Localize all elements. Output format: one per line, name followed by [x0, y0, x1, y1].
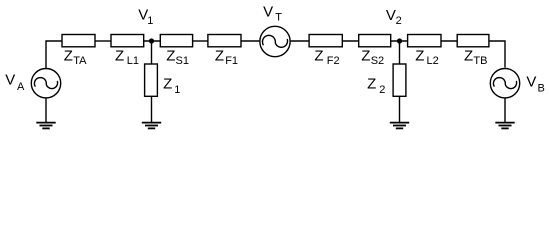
svg-text:F1: F1 — [225, 55, 238, 67]
wire VA to ground — [45, 98, 47, 122]
svg-text:V: V — [5, 72, 15, 89]
svg-text:Z: Z — [215, 47, 224, 64]
wire ZF1 to VT — [241, 40, 259, 42]
label V1 — [138, 7, 153, 27]
source VT — [260, 26, 290, 56]
wire Z1 to ground — [151, 96, 153, 122]
ground below VB — [495, 123, 514, 129]
svg-text:V: V — [263, 3, 273, 20]
svg-text:Z: Z — [314, 47, 323, 64]
wire V2 node to Z2 — [399, 41, 401, 64]
ground below VA — [36, 123, 55, 129]
svg-text:S1: S1 — [176, 55, 189, 67]
svg-text:T: T — [275, 12, 282, 24]
svg-text:Z: Z — [367, 76, 376, 93]
svg-text:L2: L2 — [427, 55, 439, 67]
svg-text:Z: Z — [361, 47, 370, 64]
label VB — [526, 73, 544, 94]
svg-text:TB: TB — [473, 55, 487, 67]
label ZF1 — [215, 47, 238, 67]
wire ZL1 to ZS1 — [144, 40, 161, 42]
impedance Z2 — [393, 64, 406, 96]
impedance ZS2 — [359, 35, 391, 47]
label Z1 — [163, 76, 180, 96]
label ZS2 — [361, 47, 384, 67]
label V2 — [386, 7, 402, 27]
source VA — [31, 69, 60, 98]
impedance ZL1 — [111, 35, 144, 47]
svg-text:Z: Z — [163, 76, 172, 93]
impedance ZF2 — [309, 35, 342, 47]
node V1 junction dot — [149, 38, 154, 43]
ground below Z1 — [142, 123, 161, 129]
wire from VA top to ZTA — [46, 41, 62, 69]
node V2 junction dot — [397, 38, 402, 43]
label ZTB — [464, 47, 487, 67]
wire Z2 to ground — [399, 96, 401, 122]
wire VB to ground — [504, 98, 506, 122]
wire ZTA to ZL1 — [95, 40, 111, 42]
wire VT to ZF2 — [291, 40, 310, 42]
ground below Z2 — [390, 123, 409, 129]
source VB — [490, 69, 519, 98]
svg-text:1: 1 — [174, 84, 180, 96]
label VA — [5, 72, 25, 93]
label ZF2 — [314, 47, 339, 67]
svg-text:Z: Z — [64, 47, 73, 64]
wire V1 node to Z1 — [151, 41, 153, 64]
svg-text:2: 2 — [379, 84, 385, 96]
impedance ZTB — [457, 35, 489, 47]
svg-text:L1: L1 — [127, 55, 139, 67]
svg-text:1: 1 — [147, 15, 153, 27]
svg-text:Z: Z — [464, 47, 473, 64]
svg-text:Z: Z — [415, 47, 424, 64]
svg-text:Z: Z — [166, 47, 175, 64]
wire ZTB to VB top — [489, 41, 505, 68]
wire ZF2 to ZS2 — [342, 40, 358, 42]
label VT — [263, 3, 282, 23]
impedance Z1 — [145, 64, 158, 96]
svg-text:2: 2 — [396, 15, 402, 27]
svg-text:TA: TA — [73, 55, 87, 67]
svg-text:A: A — [17, 81, 25, 93]
impedance ZTA — [62, 35, 95, 47]
label Z2 — [367, 76, 385, 96]
label ZS1 — [166, 47, 189, 67]
svg-text:S2: S2 — [371, 55, 384, 67]
svg-text:F2: F2 — [327, 55, 340, 67]
impedance ZF1 — [208, 35, 241, 47]
impedance ZS1 — [160, 35, 192, 47]
wire ZS1 to ZF1 — [193, 40, 208, 42]
wire ZL2 to ZTB — [441, 40, 457, 42]
label ZTA — [64, 47, 87, 67]
wire ZS2 to ZL2 — [391, 40, 408, 42]
label ZL2 — [415, 47, 439, 67]
svg-text:V: V — [526, 73, 536, 90]
svg-text:B: B — [538, 83, 545, 95]
impedance ZL2 — [408, 35, 441, 47]
svg-text:Z: Z — [115, 47, 124, 64]
svg-text:V: V — [386, 7, 396, 24]
label ZL1 — [115, 47, 139, 67]
